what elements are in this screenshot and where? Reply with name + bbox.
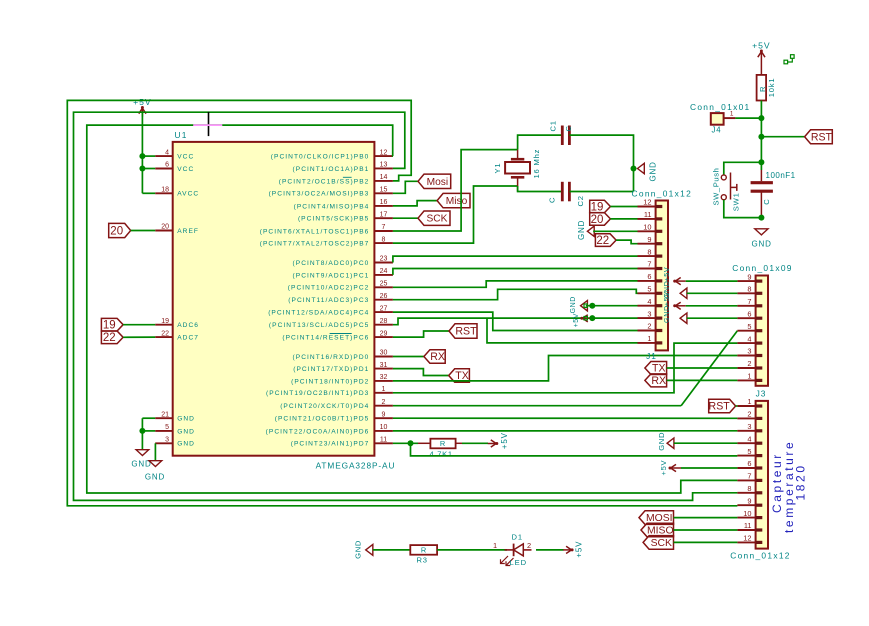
junction VCC pin6 xyxy=(139,166,145,172)
U1 left pin 20 AREF xyxy=(155,224,199,235)
svg-text:2: 2 xyxy=(382,399,386,406)
svg-text:6: 6 xyxy=(165,162,169,169)
U1 right pin 16 PB4 xyxy=(294,199,393,210)
J1 pin 12 xyxy=(638,198,663,207)
wire XTAL1 (pin7) to crystal xyxy=(393,150,518,231)
svg-text:R3: R3 xyxy=(417,556,428,565)
svg-text:19: 19 xyxy=(161,318,169,325)
svg-text:22: 22 xyxy=(596,235,609,247)
U1 left pin 3 GND xyxy=(155,437,195,448)
svg-text:7: 7 xyxy=(382,224,386,231)
svg-text:VCC: VCC xyxy=(177,166,194,173)
wire 20 to AREF xyxy=(131,230,156,232)
svg-text:ADC7: ADC7 xyxy=(177,335,199,342)
svg-text:(PCINT4/MISO)PB4: (PCINT4/MISO)PB4 xyxy=(294,203,370,210)
svg-text:GND: GND xyxy=(662,305,671,323)
svg-text:8: 8 xyxy=(747,285,751,294)
J2 pin 6 xyxy=(737,309,762,318)
svg-text:+5V: +5V xyxy=(500,432,509,449)
ground flag GND (top right) xyxy=(752,229,772,248)
svg-text:R: R xyxy=(440,439,445,448)
wire PD2 to J2 pin3 xyxy=(393,356,738,381)
svg-text:Conn_01x09: Conn_01x09 xyxy=(732,263,793,273)
U1 right pin 13 PB1 xyxy=(293,162,393,173)
svg-text:4: 4 xyxy=(647,297,651,306)
U1 left pin 21 GND xyxy=(155,411,195,422)
U1 right pin 10 PD6 xyxy=(266,424,393,435)
resistor R1 10k xyxy=(757,75,776,101)
svg-text:12: 12 xyxy=(380,149,388,156)
ground flag crystal GND xyxy=(638,161,658,181)
svg-text:(PCINT17/TXD)PD1: (PCINT17/TXD)PD1 xyxy=(293,366,369,373)
svg-text:31: 31 xyxy=(380,362,388,369)
global label 22 (J1 pin9) xyxy=(595,234,616,247)
U1 right pin 25 PC2 xyxy=(288,281,393,292)
wire PB2 to J3 pin9 (outer loop) xyxy=(67,100,737,505)
svg-text:13: 13 xyxy=(380,162,388,169)
svg-text:C: C xyxy=(548,197,557,203)
wire PB0 to J3 pin7 (inner loop) xyxy=(87,125,738,493)
U1 right pin 11 PD7 xyxy=(291,437,393,448)
J1 pin 10 xyxy=(638,223,663,232)
svg-text:2: 2 xyxy=(647,322,651,331)
svg-text:(PCINT0/CLKO/ICP1)PB0: (PCINT0/CLKO/ICP1)PB0 xyxy=(271,154,370,161)
svg-text:GND: GND xyxy=(657,432,666,451)
J3 pin 4 xyxy=(737,434,762,443)
svg-text:R: R xyxy=(421,545,426,554)
svg-text:(PCINT20/XCK/T0)PD4: (PCINT20/XCK/T0)PD4 xyxy=(280,403,369,410)
svg-text:AVCC: AVCC xyxy=(177,191,199,198)
global label 20 (AREF) xyxy=(109,223,131,237)
svg-text:U1: U1 xyxy=(175,130,188,140)
junction J1 pin4 net xyxy=(589,303,595,309)
svg-text:(PCINT18/INT0)PD2: (PCINT18/INT0)PD2 xyxy=(291,378,369,385)
connector J2 Conn_01x09 body xyxy=(756,276,768,386)
wire PC6 to RST label xyxy=(393,331,449,337)
wire PC0 to J1 pin8 xyxy=(393,256,638,262)
svg-text:23: 23 xyxy=(380,256,388,263)
J1 pin 11 xyxy=(638,210,663,219)
capacitor C2 xyxy=(548,182,586,207)
svg-text:J3: J3 xyxy=(756,389,767,399)
global label 19 (ADC6) xyxy=(101,318,123,331)
svg-text:6: 6 xyxy=(747,309,751,318)
wire J1 pin4 stub net xyxy=(586,305,638,307)
wire GND to J1 pin10 xyxy=(593,230,637,232)
svg-text:4: 4 xyxy=(165,149,169,156)
svg-text:RST: RST xyxy=(709,401,731,413)
svg-text:C2: C2 xyxy=(576,195,585,206)
crystal Y1 16 Mhz xyxy=(493,149,541,192)
LED D1 xyxy=(493,532,532,567)
U1 right pin 31 PD1 xyxy=(293,362,393,373)
svg-text:RST: RST xyxy=(455,326,477,338)
global label TX (J2 pin2) xyxy=(645,362,667,375)
svg-text:(PCINT23/AIN1)PD7: (PCINT23/AIN1)PD7 xyxy=(291,441,370,448)
wire PD3 to J2 pin4 xyxy=(393,343,738,393)
svg-text:Conn_01x12: Conn_01x12 xyxy=(632,189,693,199)
svg-text:19: 19 xyxy=(591,201,604,213)
svg-text:3: 3 xyxy=(747,347,751,356)
wire TX to J2 pin2 xyxy=(667,367,738,369)
svg-text:RST: RST xyxy=(811,131,833,143)
wire PB5 to SCK label xyxy=(393,217,418,219)
svg-text:LED: LED xyxy=(510,558,527,567)
wire 20 to J1 pin11 xyxy=(610,218,637,220)
J2 pin 5 xyxy=(737,322,762,331)
svg-text:SW_Push: SW_Push xyxy=(712,168,721,206)
svg-text:3: 3 xyxy=(165,437,169,444)
ground flag GND (LED) xyxy=(353,540,372,559)
J2 pin 9 xyxy=(737,272,762,281)
wire RST to J3 pin1 xyxy=(736,405,738,407)
junction SW/C node top xyxy=(758,159,764,165)
svg-text:22: 22 xyxy=(103,332,116,344)
wire SCK to J3 pin12 xyxy=(674,541,738,543)
global label Mosi xyxy=(418,174,451,188)
junction GND pin5 xyxy=(139,428,145,434)
svg-text:Miso: Miso xyxy=(446,196,468,207)
capacitor C3 100nF xyxy=(751,162,796,217)
svg-text:GND: GND xyxy=(177,428,195,435)
svg-text:SW1: SW1 xyxy=(731,192,740,211)
svg-text:(PCINT13/SCL/ADC5)PC5: (PCINT13/SCL/ADC5)PC5 xyxy=(269,322,369,329)
U1 right pin 30 PD0 xyxy=(293,350,393,361)
svg-text:(PCINT19/OC2B/INT1)PD3: (PCINT19/OC2B/INT1)PD3 xyxy=(266,390,369,397)
J3 pin 10 xyxy=(737,509,762,518)
connector J4 Conn_01x01 xyxy=(690,102,751,135)
U1 right pin 9 PD5 xyxy=(275,411,393,422)
svg-text:2: 2 xyxy=(747,359,751,368)
wire GND pins 21/5 xyxy=(142,418,155,449)
J3 pin 9 xyxy=(737,496,762,505)
wire PB4 to Miso label xyxy=(393,201,437,206)
svg-text:+5V: +5V xyxy=(752,41,771,51)
U1 left pin 4 VCC xyxy=(155,149,194,160)
J2 pin 1 xyxy=(737,372,762,381)
wire MISO to J3 pin11 xyxy=(674,529,738,531)
capacitor C1 xyxy=(549,120,573,145)
wire PD7 branch to J3 pin5 xyxy=(411,443,738,456)
svg-text:2: 2 xyxy=(527,541,531,550)
wire PC2 to J1 pin6 xyxy=(393,281,638,287)
wire R1 to RST node xyxy=(760,101,762,163)
U1 right pin 15 PB3 xyxy=(269,187,393,198)
U1 right pin 17 PB5 xyxy=(298,211,393,222)
svg-text:10: 10 xyxy=(743,509,751,518)
svg-text:20: 20 xyxy=(161,224,169,231)
overline RESET (PC6) xyxy=(330,333,352,335)
svg-text:+5V: +5V xyxy=(662,291,671,306)
ground flag at J3 pin4 xyxy=(657,432,674,451)
U1 right pin 14 PB2 xyxy=(279,174,393,185)
U1 right pin 7 PB6 xyxy=(260,224,393,235)
svg-text:27: 27 xyxy=(380,305,388,312)
global label RST (top right) xyxy=(805,130,833,144)
U1 left pin 19 ADC6 xyxy=(155,318,199,329)
svg-text:D1: D1 xyxy=(512,532,524,541)
svg-text:(PCINT16/RXD)PD0: (PCINT16/RXD)PD0 xyxy=(293,354,370,361)
svg-text:1820: 1820 xyxy=(794,463,808,500)
connector J3 Conn_01x12 body xyxy=(756,401,768,549)
wire +5V to J2 pin9 xyxy=(686,280,738,282)
U1 right pin 27 PC4 xyxy=(268,305,393,316)
J1 pin 8 xyxy=(638,247,663,256)
wire SW1 bottom to node xyxy=(724,200,762,218)
svg-text:19: 19 xyxy=(103,320,116,332)
power +5V at J2 pin7 xyxy=(662,291,686,309)
svg-text:100nF1: 100nF1 xyxy=(766,171,796,180)
wire +5V to J2 pin7 xyxy=(686,305,738,307)
U1 left pin 18 AVCC xyxy=(155,187,199,198)
svg-text:15: 15 xyxy=(380,187,388,194)
svg-text:+5V: +5V xyxy=(573,313,580,327)
U1 right pin 8 PB7 xyxy=(260,236,393,247)
svg-text:20: 20 xyxy=(591,214,604,226)
svg-text:1: 1 xyxy=(382,386,386,393)
J3 pin 1 xyxy=(737,397,762,406)
wire GND pin3 xyxy=(154,443,156,461)
U1 right pin 28 PC5 xyxy=(269,318,393,329)
ground flag at J2 pin8 xyxy=(662,281,687,299)
wire GND to J2 pin6 xyxy=(687,317,738,319)
svg-text:GND: GND xyxy=(649,161,658,181)
global label RST (J3 pin1) xyxy=(709,399,736,413)
power +5V (U1 VCC rail) xyxy=(133,97,152,117)
wire R2 to +5V xyxy=(462,442,488,444)
wire +5V rail down to VCC/AVCC xyxy=(142,113,155,194)
svg-text:18: 18 xyxy=(161,187,169,194)
wire 22 to ADC7 xyxy=(123,336,155,338)
svg-text:C1: C1 xyxy=(549,120,558,131)
svg-text:GND: GND xyxy=(577,220,586,240)
U1 right pin 24 PC1 xyxy=(293,268,393,279)
ground flag GND1 xyxy=(131,450,151,469)
svg-text:9: 9 xyxy=(382,411,386,418)
power +5V at J2 pin9 xyxy=(662,267,686,285)
svg-text:(PCINT1/OC1A)PB1: (PCINT1/OC1A)PB1 xyxy=(293,166,370,173)
svg-text:29: 29 xyxy=(380,330,388,337)
junction RST node xyxy=(758,134,764,140)
global label 19 (J1 pin12) xyxy=(590,200,611,213)
wire PB3 to Mosi label xyxy=(393,181,418,193)
svg-text:GND: GND xyxy=(570,296,577,313)
svg-text:(PCINT6/XTAL1/TOSC1)PB6: (PCINT6/XTAL1/TOSC1)PB6 xyxy=(260,228,370,235)
svg-text:7: 7 xyxy=(747,297,751,306)
U1 right pin 23 PC0 xyxy=(293,256,393,267)
J2 pin 8 xyxy=(737,285,762,294)
wire PD7 to R2 xyxy=(393,442,418,444)
unconnected wire stub xyxy=(784,55,794,64)
wire GND to J3 pin4 xyxy=(674,442,738,444)
J1 pin 5 xyxy=(638,285,663,294)
wire GND to J2 pin8 xyxy=(687,292,738,294)
svg-text:+5V: +5V xyxy=(659,459,668,475)
switch SW1 SW_Push xyxy=(712,168,741,212)
global label SCK (J3 pin12) xyxy=(643,536,673,550)
svg-text:GND: GND xyxy=(353,540,362,559)
svg-text:30: 30 xyxy=(380,350,388,357)
ground flag at J1 pin4 net xyxy=(570,296,587,313)
IC U1 ATMEGA328P-AU body xyxy=(173,142,375,456)
svg-text:10k1: 10k1 xyxy=(767,78,776,98)
global label RX (PD0) xyxy=(424,350,445,364)
svg-text:+5V: +5V xyxy=(133,97,152,107)
junction SW/C node bottom xyxy=(758,215,764,221)
U1 right pin 2 PD4 xyxy=(280,399,393,410)
svg-text:GND: GND xyxy=(177,441,195,448)
wire PD1 to TX label xyxy=(393,369,449,376)
J3 pin 6 xyxy=(737,459,762,468)
global label MISO (J3 pin11) xyxy=(641,523,674,537)
svg-text:14: 14 xyxy=(380,174,388,181)
wire crystal top to C1 xyxy=(518,135,563,150)
text Capteur temperature 1820 xyxy=(770,440,808,533)
svg-text:VCC: VCC xyxy=(177,154,194,161)
J3 pin 11 xyxy=(737,521,762,530)
global label MOSI (J3 pin10) xyxy=(639,511,674,525)
svg-text:8: 8 xyxy=(647,247,651,256)
global label Miso xyxy=(437,193,470,207)
svg-text:26: 26 xyxy=(380,293,388,300)
svg-text:9: 9 xyxy=(747,496,751,505)
svg-text:ATMEGA328P-AU: ATMEGA328P-AU xyxy=(316,461,396,471)
svg-text:(PCINT5/SCK)PB5: (PCINT5/SCK)PB5 xyxy=(298,216,369,223)
svg-text:3: 3 xyxy=(647,309,651,318)
wire RX to J2 pin1 xyxy=(667,379,738,381)
svg-text:32: 32 xyxy=(380,374,388,381)
svg-text:SCK: SCK xyxy=(651,538,672,549)
wire MOSI to J3 pin10 xyxy=(674,517,738,519)
svg-text:GND: GND xyxy=(145,472,165,481)
power +5V at J3 pin6 xyxy=(659,459,681,475)
wire PC4 to J1 pin2 xyxy=(393,312,638,330)
wire C1 to gnd corner xyxy=(569,135,633,191)
svg-text:5: 5 xyxy=(647,285,651,294)
svg-text:RX: RX xyxy=(651,375,666,387)
svg-text:Conn_01x12: Conn_01x12 xyxy=(730,551,791,561)
wire riser to J1 pin1 xyxy=(487,318,638,343)
global label SCK xyxy=(418,211,450,225)
J3 pin 2 xyxy=(737,410,762,419)
svg-text:+5V: +5V xyxy=(662,267,671,282)
wire PC3 to J1 pin5 xyxy=(393,289,638,299)
svg-text:11: 11 xyxy=(380,437,387,444)
svg-text:J1: J1 xyxy=(646,351,657,361)
wire XTAL2 (pin8) to crystal xyxy=(393,186,518,243)
global label 22 (ADC7) xyxy=(101,331,123,344)
svg-text:9: 9 xyxy=(747,272,751,281)
svg-text:24: 24 xyxy=(380,268,388,275)
svg-text:(PCINT8/ADC0)PC0: (PCINT8/ADC0)PC0 xyxy=(293,260,370,267)
J1 pin 3 xyxy=(638,309,663,318)
svg-text:4: 4 xyxy=(747,434,751,443)
U1 left pin 6 VCC xyxy=(155,162,194,173)
svg-text:(PCINT22/OC0A/AIN0)PD6: (PCINT22/OC0A/AIN0)PD6 xyxy=(266,428,370,435)
wire PC5 to J1 pin3 xyxy=(393,318,638,325)
svg-text:12: 12 xyxy=(643,198,651,207)
connector J1 Conn_01x12 body xyxy=(656,201,668,351)
svg-text:(PCINT10/ADC2)PC2: (PCINT10/ADC2)PC2 xyxy=(288,285,370,292)
J1 pin 1 xyxy=(638,334,663,343)
svg-text:5: 5 xyxy=(165,424,169,431)
svg-text:J4: J4 xyxy=(712,126,722,135)
overline SS (PB2) xyxy=(343,176,352,178)
wire PC1 to J1 pin7 xyxy=(393,269,638,275)
svg-text:1: 1 xyxy=(647,334,651,343)
svg-text:(PCINT9/ADC1)PC1: (PCINT9/ADC1)PC1 xyxy=(293,272,370,279)
svg-text:(PCINT7/XTAL2/TOSC2)PB7: (PCINT7/XTAL2/TOSC2)PB7 xyxy=(260,241,370,248)
junction VCC pin4 xyxy=(139,153,145,159)
power +5V (LED) xyxy=(563,541,583,558)
resistor R2 4.7K xyxy=(418,439,462,459)
svg-text:10: 10 xyxy=(380,424,388,431)
ground flag GND2 xyxy=(145,461,165,482)
svg-text:4: 4 xyxy=(747,334,751,343)
J2 pin 4 xyxy=(737,334,762,343)
wire node to SW1 xyxy=(724,162,762,175)
ground flag at J2 pin6 xyxy=(662,305,687,323)
power +5V (R1 top) xyxy=(752,41,771,60)
svg-text:1: 1 xyxy=(493,541,497,550)
power +5V at J1 pin3 net xyxy=(573,313,593,327)
J3 pin 8 xyxy=(737,484,762,493)
wire PB1 to J3 pin8 (middle loop) xyxy=(74,112,738,500)
svg-text:11: 11 xyxy=(744,521,752,530)
wire R3 to LED xyxy=(437,549,507,551)
wire PD5 to J3 pin2 xyxy=(393,417,738,419)
svg-text:4.7K1: 4.7K1 xyxy=(430,449,453,458)
svg-text:C: C xyxy=(762,199,771,205)
svg-text:21: 21 xyxy=(161,411,169,418)
wire diagonal to J2 pin5 xyxy=(681,331,737,406)
svg-text:28: 28 xyxy=(380,318,388,325)
svg-text:22: 22 xyxy=(161,330,169,337)
wire GND to R3 xyxy=(373,549,411,551)
svg-text:GND: GND xyxy=(752,239,772,248)
svg-text:TX: TX xyxy=(652,363,666,375)
svg-text:3: 3 xyxy=(747,422,751,431)
svg-text:6: 6 xyxy=(747,459,751,468)
svg-text:17: 17 xyxy=(380,211,388,218)
crosshair artifact xyxy=(193,112,222,136)
global label TX (PD1) xyxy=(449,369,470,383)
wire LED to +5V xyxy=(536,549,564,551)
junction PD7 xyxy=(408,440,414,446)
svg-text:(PCINT21/OC0B/T1)PD5: (PCINT21/OC0B/T1)PD5 xyxy=(275,416,370,423)
U1 left pin 22 ADC7 xyxy=(155,330,199,341)
svg-text:1: 1 xyxy=(747,372,751,381)
junction J1 pin3 net xyxy=(589,315,595,321)
J1 pin 4 xyxy=(638,297,663,306)
wire PD4 to diagonal xyxy=(393,405,681,407)
svg-text:SCK: SCK xyxy=(427,214,448,225)
svg-text:5: 5 xyxy=(747,322,751,331)
wire 22 to J1 pin9 xyxy=(616,240,637,244)
J3 pin 5 xyxy=(737,447,762,456)
svg-text:16: 16 xyxy=(380,199,388,206)
wire PD0 to RX label xyxy=(393,356,424,358)
wire +5V to R1 xyxy=(760,60,762,75)
svg-text:5: 5 xyxy=(747,447,751,456)
svg-text:Mosi: Mosi xyxy=(427,177,449,188)
svg-text:7: 7 xyxy=(647,260,651,269)
U1 right pin 32 PD2 xyxy=(291,374,393,385)
wire +5V to J3 pin6 xyxy=(681,467,737,469)
svg-text:C: C xyxy=(564,126,573,132)
J1 pin 2 xyxy=(638,322,663,331)
svg-text:6: 6 xyxy=(647,272,651,281)
